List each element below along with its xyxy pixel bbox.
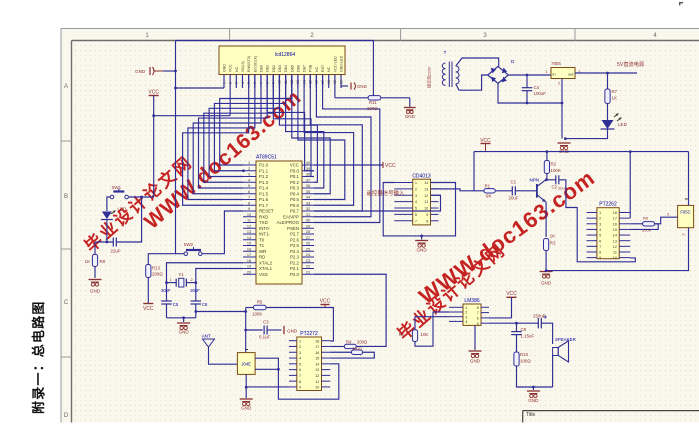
svg-text:C: C — [64, 300, 69, 306]
svg-text:5V直流电源: 5V直流电源 — [617, 60, 645, 68]
power port VCC at MCU pin40 — [314, 164, 383, 166]
PT2272 pins — [289, 339, 330, 389]
svg-text:AT89C51: AT89C51 — [256, 155, 277, 161]
svg-text:En(SCLK): En(SCLK) — [253, 56, 257, 72]
svg-text:J04E: J04E — [241, 362, 251, 367]
svg-text:PT2262: PT2262 — [599, 202, 617, 208]
wire PT2272 pin9 to ground stem — [246, 386, 289, 388]
svg-text:R13: R13 — [152, 266, 161, 271]
svg-text:5: 5 — [599, 234, 601, 238]
decoder U8 PT2272 — [297, 337, 322, 391]
svg-text:GND: GND — [178, 330, 189, 335]
wire F05C pin2 down — [546, 228, 688, 271]
svg-text:40: 40 — [306, 161, 310, 165]
wire R9 loop to pin15 — [330, 352, 374, 358]
svg-text:in: in — [553, 72, 556, 77]
svg-text:B: B — [64, 194, 68, 200]
svg-text:1: 1 — [599, 211, 601, 215]
svg-text:8: 8 — [299, 380, 301, 384]
wire CD4013 loop to ground — [383, 183, 455, 236]
svg-text:DB5: DB5 — [290, 65, 294, 72]
svg-text:0.1uF: 0.1uF — [259, 335, 271, 340]
svg-text:10: 10 — [247, 213, 251, 217]
svg-text:VCC: VCC — [143, 306, 154, 312]
svg-text:3: 3 — [248, 173, 250, 177]
svg-text:6: 6 — [477, 317, 479, 321]
stray mark top right — [679, 2, 683, 3]
ground below CD4013 — [421, 236, 423, 240]
svg-text:16: 16 — [315, 351, 319, 355]
ground terminal LCD pin20 — [340, 86, 342, 88]
wire XTAL1 to crystal — [196, 269, 243, 283]
svg-text:VCC: VCC — [320, 299, 331, 305]
svg-text:250uF: 250uF — [533, 314, 546, 319]
junction crystal to receiver — [194, 310, 197, 313]
svg-text:NC: NC — [315, 66, 319, 72]
wire rail to R1 input — [474, 152, 484, 191]
svg-text:9: 9 — [426, 213, 428, 217]
svg-text:16: 16 — [613, 222, 617, 226]
svg-text:7: 7 — [415, 219, 417, 223]
svg-text:2: 2 — [558, 82, 560, 86]
svg-text:200Ω: 200Ω — [152, 272, 163, 277]
junction PT2262 feed — [629, 150, 632, 153]
svg-text:5: 5 — [248, 184, 250, 188]
capacitor C4 100uF — [526, 75, 528, 88]
svg-text:P2.5: P2.5 — [290, 243, 300, 248]
svg-text:A: A — [64, 84, 68, 90]
svg-text:P1.3: P1.3 — [259, 180, 269, 185]
svg-text:14: 14 — [424, 181, 428, 185]
PT2262 pins — [587, 211, 631, 260]
wire MCU P0.7 to CD4013 — [314, 195, 441, 211]
svg-text:4: 4 — [415, 200, 417, 204]
svg-text:LED: LED — [118, 207, 127, 212]
wire CD4013 pin13 to R1 — [431, 189, 475, 191]
svg-text:P2.0: P2.0 — [290, 272, 300, 277]
svg-text:28: 28 — [306, 230, 310, 234]
svg-text:RST: RST — [321, 64, 325, 72]
svg-text:18: 18 — [315, 339, 319, 343]
wire R13 to VCC below — [147, 278, 149, 304]
svg-text:lcd12864: lcd12864 — [275, 52, 296, 58]
ground below speaker — [532, 387, 534, 390]
resistor R3 1K — [544, 239, 549, 251]
junction collector — [545, 178, 548, 181]
LED D1 — [102, 212, 112, 220]
junction C8 — [515, 322, 518, 325]
wire LM386 output rail — [489, 322, 538, 324]
wire SW1 left to LED1 — [107, 197, 110, 211]
svg-text:100K: 100K — [252, 312, 262, 317]
svg-text:8: 8 — [426, 219, 428, 223]
svg-text:DB2: DB2 — [272, 65, 276, 72]
svg-text:VCC: VCC — [290, 163, 299, 168]
junction C4 — [526, 74, 529, 77]
ground below crystal — [183, 318, 185, 322]
svg-text:3: 3 — [667, 213, 669, 217]
CD4013 pins — [394, 181, 440, 223]
MCU U1 AT89C51 — [256, 161, 302, 284]
svg-text:2: 2 — [190, 278, 192, 282]
wire emitter to R3 — [545, 202, 547, 237]
svg-text:5: 5 — [299, 362, 301, 366]
svg-text:NC: NC — [235, 66, 239, 72]
svg-text:P2.7: P2.7 — [290, 232, 300, 237]
svg-text:out: out — [568, 72, 574, 77]
svg-text:3: 3 — [235, 82, 239, 84]
wire LM386 ground — [474, 325, 476, 350]
wire bundle right fan LCD control to MCU P0 — [267, 75, 380, 223]
svg-text:DB1: DB1 — [266, 65, 270, 72]
svg-text:Title: Title — [526, 412, 535, 418]
resistor R9 on PT2272 pin16 — [330, 351, 351, 353]
resistor R6 300K — [630, 223, 642, 225]
power port VCC top left — [149, 95, 159, 97]
svg-text:35: 35 — [306, 190, 310, 194]
wire LED to ground rail — [565, 129, 607, 139]
svg-text:5: 5 — [415, 207, 417, 211]
svg-text:R4: R4 — [346, 340, 352, 345]
wire VCC rail down — [153, 96, 155, 198]
wire 5V output — [575, 72, 637, 74]
title block — [523, 410, 699, 412]
svg-text:9: 9 — [299, 386, 301, 390]
svg-text:5: 5 — [477, 322, 479, 326]
svg-text:WR: WR — [259, 249, 266, 254]
svg-text:11: 11 — [247, 219, 251, 223]
svg-text:R3: R3 — [550, 241, 556, 246]
svg-text:C4: C4 — [534, 85, 540, 90]
svg-text:T0: T0 — [259, 237, 265, 242]
svg-text:R/W(ST3): R/W(ST3) — [247, 56, 251, 72]
wire XTAL2 to crystal — [167, 263, 244, 283]
svg-text:32: 32 — [306, 207, 310, 211]
svg-text:4: 4 — [599, 228, 601, 232]
svg-text:GND: GND — [135, 69, 146, 74]
svg-text:P0.1: P0.1 — [290, 174, 300, 179]
wire top border feeder run — [176, 40, 375, 42]
bridge rectifier D — [488, 66, 509, 83]
svg-text:17: 17 — [315, 345, 319, 349]
svg-text:1: 1 — [222, 82, 226, 84]
svg-text:LED: LED — [618, 122, 628, 127]
ground terminal C3 — [267, 329, 281, 331]
svg-text:R10: R10 — [520, 352, 529, 357]
svg-text:10: 10 — [613, 256, 617, 260]
svg-text:4: 4 — [465, 320, 467, 324]
wire R5 to PT2272 pin18 — [266, 308, 333, 342]
receiver module U7 J04E — [237, 353, 255, 375]
svg-text:附录一：总电路图: 附录一：总电路图 — [31, 300, 46, 414]
svg-text:LM386: LM386 — [464, 298, 480, 304]
svg-text:22uF: 22uF — [111, 249, 121, 254]
wire R10 to ground rail — [517, 366, 553, 387]
ground below J04E — [240, 398, 253, 400]
wire reset node — [95, 241, 113, 243]
svg-text:SPEAKER: SPEAKER — [555, 337, 576, 342]
ground below R3 — [540, 271, 553, 273]
wire LED to cap node — [106, 220, 108, 243]
svg-text:37: 37 — [306, 178, 310, 182]
svg-text:P0.3: P0.3 — [290, 186, 300, 191]
svg-text:GND: GND — [541, 281, 552, 286]
svg-text:13: 13 — [424, 187, 428, 191]
svg-text:6: 6 — [599, 239, 601, 243]
ground below R11 — [404, 107, 416, 109]
svg-text:XTAL1: XTAL1 — [259, 266, 273, 271]
svg-text:C8: C8 — [521, 327, 527, 332]
svg-text:23: 23 — [306, 259, 310, 263]
svg-text:VCC: VCC — [229, 64, 233, 72]
svg-text:CD4013: CD4013 — [412, 174, 431, 180]
svg-text:100K: 100K — [551, 168, 561, 173]
svg-text:R8: R8 — [100, 259, 106, 264]
svg-text:P1.0: P1.0 — [259, 163, 269, 168]
junction ground node — [564, 137, 567, 140]
svg-text:3: 3 — [599, 222, 601, 226]
junction LCD pin1 — [174, 87, 177, 90]
svg-text:Y1: Y1 — [178, 272, 184, 277]
svg-text:VCC: VCC — [148, 89, 159, 95]
svg-text:R1: R1 — [485, 184, 491, 189]
wire LM386 pin2 loop to Rx bottom — [415, 312, 449, 346]
wire LCD pin2 to VCC rail — [229, 88, 231, 116]
svg-text:P2.4: P2.4 — [290, 249, 300, 254]
svg-text:1: 1 — [545, 70, 547, 74]
wire C1 to base — [515, 190, 537, 192]
svg-text:13: 13 — [247, 230, 251, 234]
svg-text:T1: T1 — [259, 243, 265, 248]
junction R2 — [546, 150, 549, 153]
svg-text:7: 7 — [248, 196, 250, 200]
resistor R1 — [484, 189, 495, 193]
svg-text:38: 38 — [306, 173, 310, 177]
svg-text:C3: C3 — [263, 320, 269, 325]
svg-text:1: 1 — [465, 306, 467, 310]
svg-text:26: 26 — [306, 242, 310, 246]
svg-text:25: 25 — [306, 247, 310, 251]
wire crystal caps ground rail — [167, 317, 196, 319]
svg-text:P2.6: P2.6 — [290, 237, 300, 242]
svg-text:13: 13 — [613, 239, 617, 243]
svg-text:1K: 1K — [612, 96, 617, 101]
svg-text:T: T — [444, 50, 447, 55]
svg-text:接交流220V: 接交流220V — [426, 66, 432, 88]
svg-text:GND-LED: GND-LED — [340, 55, 344, 72]
capacitor C7 22uF — [112, 238, 114, 247]
svg-text:SW2: SW2 — [184, 242, 194, 247]
svg-text:C1: C1 — [511, 180, 517, 185]
svg-text:11: 11 — [613, 251, 617, 255]
resistor R7 1K — [607, 73, 609, 89]
svg-text:8: 8 — [599, 251, 601, 255]
wire J04E pin1 to PT2272 pin14 — [255, 358, 339, 399]
svg-text:300Ω: 300Ω — [352, 346, 362, 351]
wire J04E ground stem — [245, 374, 247, 398]
svg-text:GND: GND — [90, 289, 101, 294]
svg-text:2: 2 — [599, 217, 601, 221]
svg-text:100Ω: 100Ω — [520, 359, 531, 364]
svg-text:R11: R11 — [369, 100, 377, 105]
svg-text:16: 16 — [247, 247, 251, 251]
wire C2 to PT2262 pin10 — [559, 180, 636, 262]
svg-text:TXD: TXD — [259, 220, 268, 225]
capacitor C3 0.1uF — [246, 329, 263, 331]
svg-text:29: 29 — [306, 224, 310, 228]
capacitor C2 — [546, 179, 556, 181]
svg-text:6: 6 — [248, 190, 250, 194]
svg-text:D: D — [64, 413, 69, 419]
svg-text:NPN: NPN — [530, 178, 540, 183]
svg-text:XTAL2: XTAL2 — [259, 260, 273, 265]
junction R7 — [606, 72, 609, 75]
svg-text:R7: R7 — [612, 89, 618, 94]
svg-text:19: 19 — [333, 80, 337, 84]
LCD pin labels — [223, 55, 344, 72]
svg-text:17: 17 — [613, 217, 617, 221]
wire F05C top to rail — [688, 152, 690, 206]
svg-text:RD: RD — [259, 255, 265, 260]
flip-flop U3 CD4013 — [413, 179, 431, 225]
MCU pins — [243, 161, 314, 277]
LED D2 power indicator — [607, 104, 609, 121]
resistor R2 100K — [546, 152, 548, 161]
wire LCD pin19 to R11 — [334, 88, 336, 98]
svg-text:7: 7 — [299, 374, 301, 378]
svg-text:遥控器信号输入: 遥控器信号输入 — [367, 189, 405, 197]
svg-text:15: 15 — [315, 357, 319, 361]
svg-text:11: 11 — [315, 380, 319, 384]
svg-text:C5: C5 — [173, 302, 179, 307]
svg-text:DB7: DB7 — [303, 65, 307, 72]
svg-text:4: 4 — [241, 82, 245, 84]
transistor Q1 NPN — [536, 184, 538, 198]
svg-text:21: 21 — [306, 270, 310, 274]
svg-text:2: 2 — [465, 311, 467, 315]
svg-text:VCC: VCC — [385, 163, 396, 169]
svg-text:18: 18 — [613, 211, 617, 215]
wire PT2262 pin15 loop — [630, 224, 658, 230]
svg-text:P0.7: P0.7 — [290, 209, 300, 214]
svg-text:GND: GND — [287, 329, 298, 334]
svg-text:13: 13 — [315, 368, 319, 372]
wire SW2 right to MCU reset — [202, 211, 243, 254]
svg-text:PSB: PSB — [309, 64, 313, 72]
capacitor C8 — [516, 323, 518, 331]
wire crystal node to receiver circuit — [196, 311, 246, 313]
svg-text:1K: 1K — [550, 234, 555, 239]
svg-text:DB4: DB4 — [284, 65, 288, 72]
capacitor C1 20uF — [495, 190, 512, 192]
svg-text:200Ω: 200Ω — [367, 106, 378, 111]
svg-text:33: 33 — [306, 201, 310, 205]
wire left tall rail — [175, 41, 177, 254]
resistor R11 200R — [368, 96, 381, 100]
svg-text:EA/VPP: EA/VPP — [283, 214, 299, 219]
svg-text:36: 36 — [306, 184, 310, 188]
svg-text:2: 2 — [682, 233, 686, 235]
svg-text:12: 12 — [613, 245, 617, 249]
svg-text:12: 12 — [315, 374, 319, 378]
wire speaker down — [552, 355, 554, 387]
svg-text:2: 2 — [248, 167, 250, 171]
ground below LM386 — [469, 350, 482, 352]
svg-text:Rx: Rx — [399, 332, 405, 337]
svg-text:GND: GND — [416, 248, 427, 253]
svg-text:GND: GND — [528, 398, 539, 403]
svg-text:ALE/PROG: ALE/PROG — [277, 220, 300, 225]
svg-text:300K: 300K — [642, 228, 652, 233]
wire antenna to J04E — [209, 347, 238, 364]
svg-text:RESET: RESET — [259, 209, 274, 214]
svg-text:DB6: DB6 — [296, 65, 300, 72]
svg-text:GND: GND — [357, 84, 367, 89]
svg-text:20: 20 — [247, 270, 251, 274]
svg-text:P2.2: P2.2 — [290, 260, 300, 265]
svg-text:V0(L3): V0(L3) — [241, 61, 245, 72]
wire mid VCC rail — [474, 151, 689, 153]
svg-text:8: 8 — [248, 201, 250, 205]
svg-text:F05C: F05C — [680, 210, 690, 215]
svg-text:P0.4: P0.4 — [290, 191, 300, 196]
svg-text:7805: 7805 — [551, 61, 561, 66]
svg-text:SW1: SW1 — [112, 185, 122, 190]
svg-text:R2: R2 — [551, 162, 557, 167]
svg-text:4: 4 — [299, 357, 301, 361]
wire 250uF to speaker — [541, 323, 552, 344]
wire bundle left fan LCD data to MCU P1 — [183, 75, 292, 206]
svg-text:P1.4: P1.4 — [259, 186, 269, 191]
wire VCC rail to SW1 — [129, 196, 154, 198]
resistor R13 200R — [146, 265, 151, 278]
svg-text:18: 18 — [247, 259, 251, 263]
svg-text:15: 15 — [613, 228, 617, 232]
svg-text:1: 1 — [415, 181, 417, 185]
svg-text:9: 9 — [599, 256, 601, 260]
svg-text:2: 2 — [228, 82, 232, 84]
svg-text:19: 19 — [247, 265, 251, 269]
LM386 pins — [449, 306, 489, 326]
wire LCD pin1 to left rail — [176, 87, 225, 89]
wire R11 to ground — [381, 97, 410, 99]
svg-text:14: 14 — [613, 234, 617, 238]
svg-text:P0.5: P0.5 — [290, 197, 300, 202]
svg-text:14: 14 — [315, 362, 319, 366]
svg-text:7: 7 — [599, 245, 601, 249]
junction reset cap riser — [140, 196, 143, 199]
svg-text:12: 12 — [247, 224, 251, 228]
svg-text:8: 8 — [477, 306, 479, 310]
svg-text:9: 9 — [248, 207, 250, 211]
wire LM386 pin3 to Rx — [415, 317, 449, 330]
svg-text:3: 3 — [465, 315, 467, 319]
svg-text:1.15uF: 1.15uF — [521, 334, 535, 339]
svg-text:GND: GND — [405, 114, 416, 119]
svg-text:18: 18 — [327, 80, 331, 84]
svg-text:31: 31 — [306, 213, 310, 217]
svg-text:11: 11 — [424, 200, 428, 204]
wire R3 to ground — [545, 251, 547, 271]
svg-text:7: 7 — [477, 311, 479, 315]
svg-text:C6: C6 — [202, 302, 208, 307]
LCD pin stubs and numbers — [222, 75, 343, 89]
svg-text:1: 1 — [248, 161, 250, 165]
wire R2 to collector — [546, 174, 548, 180]
svg-text:DB3: DB3 — [278, 65, 282, 72]
power port VCC below R13 — [143, 303, 153, 305]
svg-text:14: 14 — [247, 236, 251, 240]
